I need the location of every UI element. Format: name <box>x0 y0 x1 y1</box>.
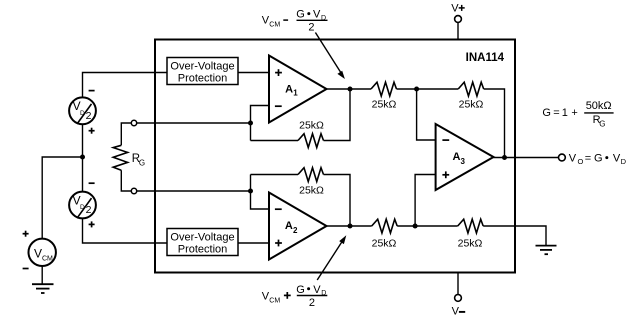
svg-text:CM: CM <box>269 298 280 305</box>
source VD/2 top <box>69 97 96 124</box>
svg-text:G: G <box>594 152 603 164</box>
op-amp A2 <box>269 193 327 260</box>
resistor 25k feedback A1 <box>251 140 299 142</box>
wire bottom middle <box>397 225 458 227</box>
node A3 minus net <box>414 87 419 92</box>
wire V+ to box <box>457 22 459 39</box>
minus sign inside A2 <box>275 208 282 210</box>
wire bottom OVP to A2 plus input <box>238 242 269 244</box>
plus sign inside A3 <box>442 174 449 176</box>
svg-text:G: G <box>542 107 551 119</box>
plus sign of bottom VD/2 <box>89 223 95 225</box>
svg-text:+: + <box>571 107 577 119</box>
svg-text:2: 2 <box>86 110 92 122</box>
resistor 25k top-right (A3 feedback) <box>458 82 484 96</box>
resistor 25k bottom-left (A2 out to A3 plus) <box>372 219 398 233</box>
svg-text:2: 2 <box>309 297 315 309</box>
svg-text:2: 2 <box>293 226 298 235</box>
wire top OVP to A1 plus input <box>238 72 269 74</box>
pin terminal RG bottom <box>131 188 136 193</box>
svg-text:G: G <box>139 159 145 168</box>
plus sign inside A2 <box>275 242 282 244</box>
wire A3 output to terminal <box>494 157 559 159</box>
ground right <box>536 245 557 247</box>
wire node to A3 plus input <box>415 175 436 227</box>
wire bottom VD/2 to lower over-voltage protection input <box>83 218 168 243</box>
svg-text:Protection: Protection <box>178 73 228 85</box>
pin terminal V+ <box>455 16 462 23</box>
minus sign of bottom VD/2 <box>89 182 95 184</box>
svg-text:V: V <box>313 9 321 21</box>
pin terminal VO <box>559 154 566 161</box>
svg-text:Over-Voltage: Over-Voltage <box>170 61 234 73</box>
svg-text:INA114: INA114 <box>466 52 505 64</box>
node A2 output <box>348 224 353 229</box>
node A1 output <box>348 87 353 92</box>
node A2 feedback / RG <box>248 189 253 194</box>
svg-text:V: V <box>451 2 459 14</box>
svg-text:50kΩ: 50kΩ <box>586 100 612 112</box>
svg-text:V: V <box>313 284 321 296</box>
ground under VCM <box>32 283 54 285</box>
op-amp A3 <box>436 124 494 190</box>
svg-text:V: V <box>569 152 577 164</box>
svg-text:G: G <box>296 284 305 296</box>
node A1 feedback / RG <box>248 121 253 126</box>
svg-text:Over-Voltage: Over-Voltage <box>170 232 234 244</box>
wire bottom VD/2 top lead from node A <box>82 157 84 192</box>
node A3 plus net <box>413 224 418 229</box>
op-amp A1 <box>269 56 327 123</box>
plus sign of VCM <box>23 233 29 235</box>
over-voltage protection box bottom <box>167 229 238 256</box>
minus sign of top VD/2 <box>89 90 95 92</box>
svg-text:2: 2 <box>308 21 314 33</box>
resistor 25k feedback A2 <box>251 174 299 176</box>
svg-text:O: O <box>578 157 584 166</box>
svg-text:25kΩ: 25kΩ <box>372 238 397 250</box>
wire RG bottom pin to A2 feedback node <box>137 190 251 192</box>
svg-text:1: 1 <box>293 89 298 98</box>
wire node to A3 minus input <box>417 89 436 140</box>
svg-text:25kΩ: 25kΩ <box>299 120 324 132</box>
svg-text:CM: CM <box>269 21 280 28</box>
wire A1 minus input <box>251 106 270 141</box>
plus sign inside A1 <box>275 72 282 74</box>
node A <box>80 155 85 160</box>
svg-text:V: V <box>34 246 42 260</box>
wire A2 output <box>327 225 372 227</box>
wire top VD/2 bottom lead to node A <box>82 124 84 157</box>
source VCM <box>29 239 56 266</box>
resistor 25k bottom-right (reference to ground) <box>458 219 484 233</box>
resistor RG <box>121 123 131 145</box>
plus sign of top VD/2 <box>89 130 95 132</box>
svg-text:CM: CM <box>42 255 53 262</box>
wire RG top pin to A1 feedback node <box>137 122 251 124</box>
svg-text:25kΩ: 25kΩ <box>372 99 397 111</box>
svg-text:25kΩ: 25kΩ <box>458 238 483 250</box>
wire top middle <box>397 88 459 90</box>
svg-text:G: G <box>296 9 305 21</box>
svg-text:=: = <box>553 107 559 119</box>
svg-text:25kΩ: 25kΩ <box>459 99 484 111</box>
minus sign inside A1 <box>275 105 282 107</box>
source VD/2 bottom <box>69 192 96 219</box>
svg-text:1: 1 <box>562 107 568 119</box>
wire box to V- <box>457 273 459 295</box>
node A3 output <box>502 155 507 160</box>
svg-text:A: A <box>285 83 293 95</box>
svg-text:Protection: Protection <box>178 244 228 256</box>
resistor 25k top-left (A1 out to A3 minus) <box>371 82 397 96</box>
pin terminal V- <box>455 295 462 302</box>
svg-text:2: 2 <box>86 204 92 216</box>
svg-text:D: D <box>621 157 627 166</box>
arrow to A1 output node <box>315 33 341 74</box>
wire A1 output <box>327 88 372 90</box>
svg-text:G: G <box>599 120 605 129</box>
minus sign of VCM <box>23 268 29 270</box>
arrow to A2 output node <box>317 239 344 280</box>
svg-text:V: V <box>452 306 460 318</box>
svg-text:A: A <box>285 220 293 232</box>
wire A3 feedback down to output node <box>484 89 505 158</box>
svg-text:25kΩ: 25kΩ <box>299 185 324 197</box>
wire reference resistor to ground <box>483 226 546 246</box>
IC boundary box INA114 <box>155 40 515 273</box>
wire top VD/2 to over-voltage protection input <box>83 73 168 98</box>
svg-text:=: = <box>585 152 591 164</box>
minus sign inside A3 <box>442 139 449 141</box>
pin terminal RG top <box>131 120 136 125</box>
svg-text:A: A <box>453 151 461 163</box>
wire node A to VCM source <box>42 157 82 239</box>
over-voltage protection box top <box>167 58 238 85</box>
svg-text:3: 3 <box>461 157 466 166</box>
wire A2 minus input <box>251 175 270 210</box>
wire VCM to ground <box>41 266 43 284</box>
